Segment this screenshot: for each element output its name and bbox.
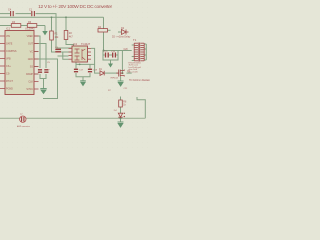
svg-text:VC: VC [30, 51, 34, 54]
svg-text:CS+: CS+ [6, 65, 11, 68]
svg-text:D2 ->+Zero Delay: D2 ->+Zero Delay [112, 36, 131, 39]
svg-text:COMPNS: COMPNS [6, 50, 17, 53]
svg-text:RT/CT: RT/CT [6, 80, 14, 83]
svg-text:GATE: GATE [6, 43, 13, 46]
svg-text:sec 2x13t: sec 2x13t [129, 70, 138, 73]
svg-text:GND: GND [28, 58, 34, 61]
svg-text:PGND: PGND [6, 88, 13, 91]
svg-text:OUT: OUT [28, 43, 34, 46]
svg-text:VREF: VREF [27, 35, 34, 38]
svg-text:SYNC: SYNC [26, 88, 33, 91]
svg-text:IRFZ44: IRFZ44 [111, 78, 119, 80]
svg-text:12 V to +/- 20V 100W DC DC con: 12 V to +/- 20V 100W DC DC converter [38, 4, 112, 10]
svg-text:VFB: VFB [6, 58, 11, 61]
svg-text:CLK: CLK [28, 81, 33, 84]
svg-text:RAMP: RAMP [26, 73, 33, 76]
svg-text:IC1: IC1 [6, 27, 11, 31]
svg-text:TK 6x10mm Radiator: TK 6x10mm Radiator [129, 79, 150, 82]
svg-text:TC4427: TC4427 [81, 42, 91, 46]
svg-text:T1: T1 [133, 38, 137, 42]
svg-text:C20: C20 [124, 49, 129, 51]
svg-text:AMP connector: AMP connector [17, 125, 30, 128]
svg-text:4k7: 4k7 [69, 36, 74, 39]
svg-text:VIN: VIN [6, 35, 10, 38]
svg-text:IC2: IC2 [73, 42, 78, 46]
svg-text:SS: SS [30, 66, 34, 69]
svg-text:CS-: CS- [6, 73, 10, 76]
